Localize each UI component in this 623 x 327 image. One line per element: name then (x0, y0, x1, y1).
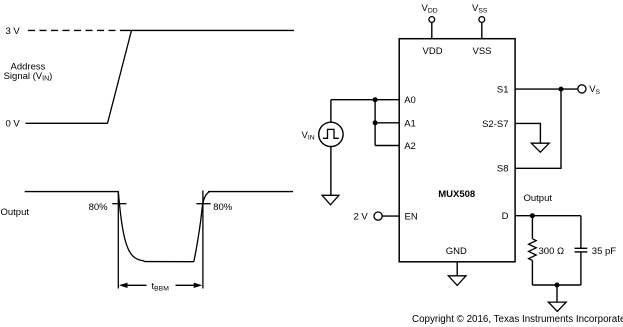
wire output high level left (25, 191, 119, 193)
svg-text:MUX508: MUX508 (438, 189, 475, 200)
node junction A1 (373, 120, 378, 125)
svg-text:0 V: 0 V (6, 119, 21, 130)
wire A0 (331, 99, 399, 101)
wire GND pin stem (456, 262, 458, 276)
svg-text:3 V: 3 V (6, 26, 21, 37)
svg-text:A0: A0 (404, 95, 416, 106)
wire output high level right (208, 191, 293, 193)
svg-text:80%: 80% (213, 202, 233, 213)
wire output rising curve (194, 191, 210, 261)
svg-text:Output: Output (524, 193, 553, 204)
wire capacitor top lead (580, 216, 582, 249)
svg-text:S8: S8 (497, 164, 509, 175)
node EN terminal (374, 212, 382, 220)
wire 0V level of address signal (26, 122, 108, 124)
svg-text:VDD: VDD (423, 46, 443, 57)
wire VSS terminal to box (481, 22, 483, 38)
node junction D (530, 213, 535, 218)
node junction S1 (559, 87, 564, 92)
ground load (548, 302, 566, 311)
wire D output (515, 215, 581, 217)
wire capacitor bottom lead (580, 252, 582, 285)
wire ramp of address signal (108, 30, 132, 123)
wire measurement vertical right edge (202, 191, 204, 289)
source VIN pulse generator (319, 122, 343, 146)
ground below VIN source (322, 195, 339, 205)
wire address bus vertical (374, 100, 376, 146)
svg-text:S2-S7: S2-S7 (482, 119, 508, 130)
wire VIN source top (330, 100, 332, 123)
svg-text:35 pF: 35 pF (592, 246, 616, 257)
svg-text:A1: A1 (404, 118, 416, 129)
svg-text:Output: Output (1, 207, 30, 218)
ground S2-S7 (531, 143, 549, 152)
node VS terminal (578, 85, 586, 93)
wire S2-S7 to ground (515, 123, 540, 143)
svg-text:Copyright © 2016, Texas Instru: Copyright © 2016, Texas Instruments Inco… (412, 314, 623, 325)
svg-text:300 Ω: 300 Ω (539, 246, 565, 257)
wire resistor bottom lead (531, 260, 533, 285)
svg-text:EN: EN (405, 212, 418, 223)
resistor 300 ohm (529, 239, 537, 261)
node junction load ground (555, 283, 560, 288)
svg-text:A2: A2 (404, 141, 416, 152)
wire VDD terminal to box (431, 22, 433, 38)
wire dashed 3V reference level (28, 29, 127, 31)
wire VIN source bottom (330, 147, 332, 196)
wire A2 (375, 145, 399, 147)
wire S8 (515, 89, 561, 168)
svg-text:S1: S1 (497, 85, 509, 96)
wire 3V high level of address signal (126, 29, 294, 31)
capacitor 35 pF (575, 247, 588, 249)
node VSS terminal (479, 17, 485, 23)
wire resistor top lead (531, 216, 533, 239)
node VDD terminal (429, 17, 435, 23)
wire measurement vertical left edge (117, 191, 119, 289)
wire EN terminal to box (382, 215, 399, 217)
svg-text:D: D (502, 211, 509, 222)
svg-text:VSS: VSS (473, 46, 492, 57)
ground GND pin (448, 276, 466, 286)
tick 80% right (196, 203, 210, 205)
tick 80% left (112, 203, 126, 205)
op-amp U1 MUX508 box (399, 39, 515, 262)
node junction A0 (373, 97, 378, 102)
svg-text:80%: 80% (89, 202, 109, 213)
wire output falling decay curve (118, 191, 194, 261)
arrow tBBM right (194, 283, 203, 288)
arrow tBBM left (119, 283, 128, 288)
wire S1 (515, 88, 578, 90)
svg-text:GND: GND (446, 246, 467, 257)
wire load ground stem (556, 285, 558, 302)
wire load bottom (532, 284, 581, 286)
wire A1 (375, 122, 399, 124)
svg-text:2 V: 2 V (354, 211, 369, 222)
